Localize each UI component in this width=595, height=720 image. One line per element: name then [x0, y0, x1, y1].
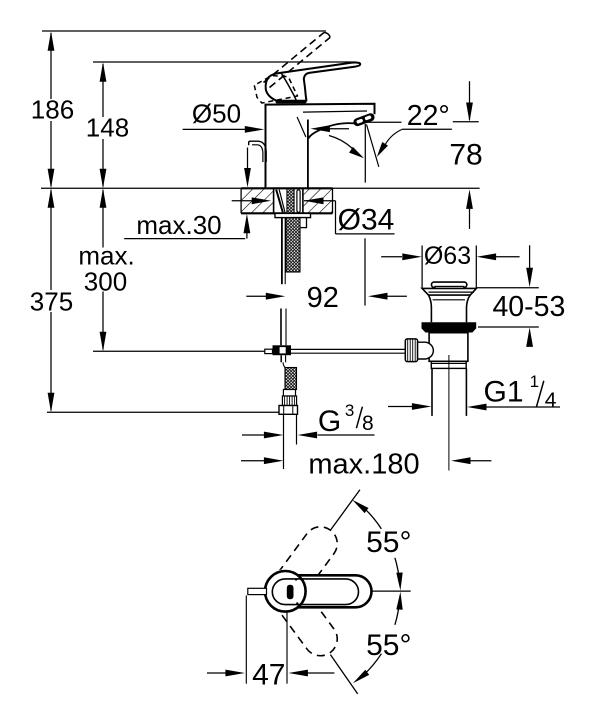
svg-text:G1: G1: [483, 376, 523, 409]
svg-text:55°: 55°: [366, 526, 411, 559]
svg-text:300: 300: [84, 267, 127, 297]
svg-text:Ø63: Ø63: [424, 242, 471, 270]
svg-text:3: 3: [345, 401, 354, 420]
svg-text:Ø34: Ø34: [338, 204, 395, 237]
svg-text:55°: 55°: [366, 629, 411, 662]
svg-text:8: 8: [362, 412, 374, 435]
svg-text:4: 4: [545, 389, 557, 412]
svg-text:148: 148: [86, 113, 129, 143]
svg-text:40-53: 40-53: [492, 291, 565, 323]
svg-text:47: 47: [252, 659, 285, 692]
svg-text:Ø50: Ø50: [192, 99, 241, 129]
svg-text:max.30: max.30: [136, 210, 221, 240]
svg-text:1: 1: [530, 372, 539, 391]
svg-text:375: 375: [30, 287, 73, 317]
svg-text:max.180: max.180: [308, 449, 419, 481]
svg-text:78: 78: [449, 139, 482, 172]
svg-text:22°: 22°: [407, 100, 450, 132]
svg-text:186: 186: [31, 95, 74, 125]
svg-text:G: G: [318, 405, 341, 438]
svg-text:92: 92: [307, 282, 339, 314]
